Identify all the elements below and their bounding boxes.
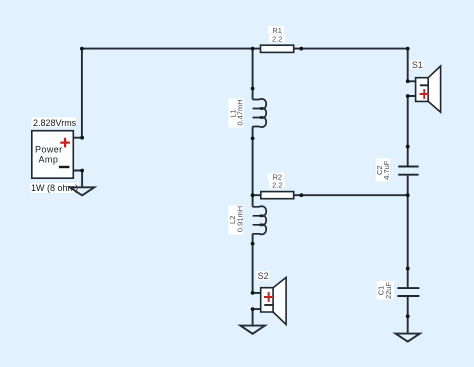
svg-text:Power: Power — [35, 144, 63, 154]
capacitor C1 plates — [397, 288, 419, 296]
svg-text:22uF: 22uF — [384, 282, 393, 300]
junction dot top-left corner — [80, 47, 84, 51]
resistor R1 label R1 — [268, 26, 284, 34]
speaker S2 label — [256, 271, 270, 280]
speaker S2 plus mark — [264, 292, 273, 302]
svg-text:2.2: 2.2 — [272, 34, 282, 43]
junction dot S1 bottom pin — [406, 94, 410, 98]
junction dot amp plus pin — [80, 136, 84, 140]
svg-text:S2: S2 — [258, 271, 269, 281]
inductor L2 label L2 — [228, 206, 243, 235]
speaker S1 minus mark — [420, 84, 429, 86]
svg-text:4.7uF: 4.7uF — [382, 160, 391, 180]
capacitor C2 plates — [398, 167, 418, 175]
junction dot L1 bottom pin — [251, 137, 255, 141]
capacitor C1 label C1 — [377, 281, 394, 300]
speaker S1 plus mark — [420, 89, 429, 99]
junction dot C2 top pin — [406, 145, 410, 149]
wire left vertical amp+ riser — [73, 49, 82, 138]
resistor R2 body — [261, 192, 294, 199]
junction dot amp minus pin — [80, 169, 84, 173]
junction dot top-right corner — [406, 47, 410, 51]
wire right vertical S1/C2/C1 net — [408, 49, 416, 334]
junction dot R2 left pin — [251, 193, 255, 197]
voltage source label 1W (8 ohm) — [30, 183, 79, 193]
speaker S2 minus mark — [264, 304, 273, 306]
svg-text:0.91mH: 0.91mH — [235, 206, 244, 232]
inductor L1 label L1 — [229, 99, 244, 128]
junction dot C1 top pin — [406, 267, 410, 271]
svg-text:0.47mH: 0.47mH — [235, 99, 244, 125]
speaker S2 cone — [273, 277, 286, 324]
inductor L1 coil — [253, 99, 267, 127]
ground at C1 — [396, 334, 420, 342]
power amp source V1 box — [32, 131, 74, 179]
ground at S2 — [240, 326, 265, 334]
junction dot L1 top pin — [251, 87, 255, 91]
resistor R2 label R2 — [268, 173, 284, 181]
inductor L2 coil — [253, 206, 267, 234]
power amp minus terminal mark — [59, 166, 70, 168]
junction dot S2 top pin — [251, 291, 255, 295]
wire top net from amp+ to S1 — [82, 48, 408, 50]
svg-text:2.828Vrms: 2.828Vrms — [33, 118, 77, 128]
ground at amp minus — [70, 187, 94, 195]
resistor R1 value 2.2 — [269, 35, 285, 43]
wire R2 row from mid net to C2 node — [253, 194, 408, 196]
junction dot R2 right pin — [300, 193, 304, 197]
junction dot C2 bottom node — [406, 193, 410, 197]
speaker S1 label — [410, 60, 424, 69]
capacitor C2 label C2 — [376, 159, 390, 182]
voltage source label 2.828Vrms — [32, 117, 77, 127]
resistor R2 value 2.2 — [269, 181, 285, 189]
junction dot S2 bottom pin — [251, 307, 255, 311]
wire S2 stubs and ground drop — [253, 293, 261, 326]
junction dot R1 left pin — [251, 47, 255, 51]
svg-text:S1: S1 — [412, 60, 423, 70]
svg-text:Amp: Amp — [39, 154, 59, 164]
power amp plus terminal mark — [60, 138, 70, 148]
svg-text:2.2: 2.2 — [272, 180, 282, 189]
resistor R1 body — [261, 45, 294, 52]
speaker S1 box — [416, 78, 429, 102]
wire middle vertical net R1/L1/R2/L2/S2 — [252, 49, 254, 293]
junction dot L2 bottom pin — [251, 242, 255, 246]
speaker S2 box — [261, 288, 273, 312]
wire amp- stub to ground — [73, 171, 82, 188]
junction dot C1 bottom pin — [406, 314, 410, 318]
junction dot S1 top pin — [406, 79, 410, 83]
junction dot R1 right pin — [299, 47, 303, 51]
speaker S1 cone — [428, 66, 440, 112]
